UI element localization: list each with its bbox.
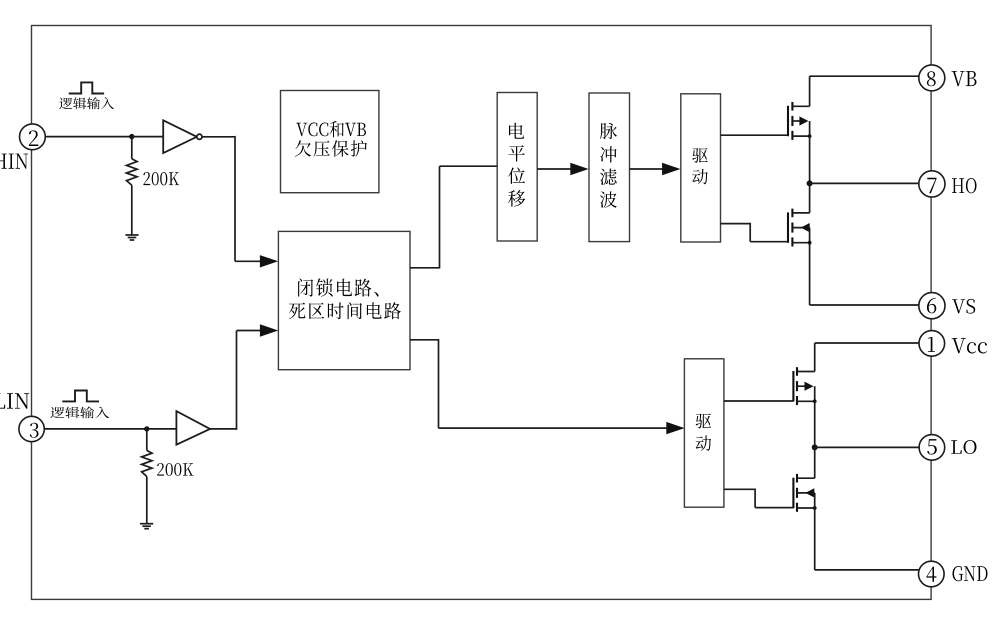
- resistor R2 200K zigzag: [142, 450, 152, 476]
- wire to Q2 gate: [750, 241, 788, 243]
- label 200K upper: [143, 172, 179, 185]
- resistor R1 lower lead: [131, 185, 133, 235]
- arrow into pulse filter: [570, 163, 588, 175]
- label VS: [952, 299, 975, 314]
- inverter U1 bubble: [197, 134, 202, 139]
- wire latch upper output: [410, 267, 440, 269]
- wire Q2 source down: [809, 243, 811, 305]
- pin 1 Vcc number: [928, 337, 935, 352]
- transistor Q1 (high-side top NMOS): [787, 106, 789, 136]
- wire up to level-shift row: [439, 166, 441, 268]
- wire lower driver bottom output: [724, 488, 755, 490]
- pulse icon upper logic input: [69, 82, 104, 93]
- block: pulse filter: [589, 93, 630, 242]
- label LIN: [0, 393, 29, 408]
- buffer U2 triangle: [176, 411, 210, 445]
- node HO junction dot: [807, 180, 813, 186]
- resistor R2 lower lead: [146, 477, 148, 524]
- wire step down: [749, 223, 751, 242]
- pin 3 LIN number: [30, 423, 39, 438]
- wire into latch box lower input: [237, 330, 263, 332]
- resistor R2 lead: [146, 429, 148, 451]
- wire bend up: [236, 331, 238, 430]
- label logic input lower (逻辑输入): [50, 407, 109, 419]
- arrow into latch box upper: [260, 255, 278, 267]
- pin 1 Vcc circle: [919, 331, 945, 357]
- wire into latch box upper input: [235, 260, 262, 262]
- block: level shift: [497, 93, 537, 242]
- wire to low-side driver: [439, 427, 669, 429]
- wire node A to inverter input: [132, 136, 163, 138]
- wire pulse-filter to driver: [630, 168, 665, 170]
- resistor R1 200K zigzag: [127, 159, 138, 186]
- wire Q1 drain up: [809, 76, 811, 106]
- wire Q3 source to node LO: [814, 401, 816, 447]
- wire inverter output to bend: [202, 136, 235, 138]
- caption 电平位移 (vertical): [509, 123, 524, 139]
- label VB: [952, 71, 977, 86]
- label 200K lower: [157, 463, 193, 476]
- arrow into high-side driver: [662, 163, 680, 175]
- pin 7 HO circle: [919, 171, 945, 197]
- pin 8 VB number: [927, 71, 936, 86]
- node A junction dot: [129, 134, 134, 139]
- node B junction dot: [144, 426, 149, 431]
- wire down to low driver row: [438, 339, 440, 428]
- wire Q3 drain up: [814, 343, 816, 372]
- caption 驱动 low-side (vertical): [696, 414, 711, 429]
- pin 6 VS number: [927, 298, 936, 314]
- wire node LO to pin 5: [815, 446, 920, 448]
- wire Q1 source to node HO: [809, 136, 811, 183]
- wire into level shift block: [440, 165, 498, 167]
- wire Q2 drain to node HO: [809, 183, 811, 213]
- resistor R1 lead: [131, 137, 133, 159]
- arrow into low-side driver: [666, 422, 684, 434]
- caption 死区时间电路: [289, 302, 401, 319]
- label Vcc: [952, 338, 987, 354]
- label logic input upper (逻辑输入): [59, 97, 114, 109]
- wire to pin 4 GND: [815, 569, 920, 571]
- block: low-side driver: [684, 359, 724, 507]
- wire pin2 to node A: [33, 136, 132, 138]
- wire driver lower output: [721, 223, 751, 225]
- arrow into latch box lower: [260, 324, 278, 336]
- pin 8 VB circle: [919, 65, 945, 91]
- transistor Q4 (low-side bottom): [792, 478, 794, 508]
- pulse icon lower logic input: [62, 391, 99, 402]
- wire to pin 8 VB: [810, 75, 919, 77]
- wire Q4 drain to node LO: [814, 447, 816, 478]
- label LO: [951, 440, 976, 454]
- pin 6 VS circle: [919, 293, 945, 319]
- caption 闭锁电路、: [298, 278, 378, 296]
- wire to Q4 gate: [755, 507, 793, 509]
- pin 5 LO number: [927, 439, 937, 455]
- wire pin3 to node B: [32, 428, 147, 430]
- wire to pin 1 Vcc: [815, 342, 919, 344]
- label HIN: [0, 154, 28, 169]
- inverter U1 triangle: [163, 120, 197, 153]
- block: high-side driver: [681, 94, 721, 242]
- ground G2: [140, 523, 153, 525]
- ground G1: [125, 234, 138, 236]
- wire driver to Q3 gate: [724, 400, 794, 402]
- pin 2 HIN number: [29, 130, 38, 146]
- pin 5 LO circle: [919, 435, 945, 461]
- block: latch + dead-time circuit: [278, 231, 410, 369]
- caption 驱动 high-side (vertical): [692, 148, 707, 163]
- wire Q4 source down: [814, 508, 816, 570]
- label GND: [953, 566, 988, 581]
- pin 4 GND circle: [919, 561, 945, 587]
- caption VCC和VB: [296, 121, 366, 137]
- wire step down low: [754, 489, 756, 508]
- wire bend down: [234, 136, 236, 261]
- pin 3 LIN circle: [19, 416, 44, 441]
- wire driver to Q1 gate: [721, 134, 789, 136]
- block: VCC/VB undervoltage protection U-UVLO: [281, 91, 379, 193]
- transistor Q2 (high-side bottom): [787, 212, 789, 242]
- pin 7 HO number: [927, 178, 936, 194]
- wire buffer output to bend: [210, 428, 237, 430]
- wire node HO to pin 7: [810, 182, 919, 184]
- transistor Q3 (low-side top NMOS): [792, 371, 794, 401]
- wire node B to buffer input: [147, 428, 177, 430]
- pin 4 GND number: [926, 567, 936, 582]
- label HO: [952, 178, 977, 193]
- caption 欠压保护: [295, 140, 367, 157]
- wire level-shift to pulse-filter: [537, 168, 573, 170]
- caption 脉冲滤波 (vertical): [600, 123, 617, 139]
- wire latch lower output: [410, 339, 439, 341]
- node LO junction dot: [812, 444, 818, 450]
- pin 2 HIN circle: [20, 124, 46, 150]
- wire to pin 6 VS: [810, 304, 919, 306]
